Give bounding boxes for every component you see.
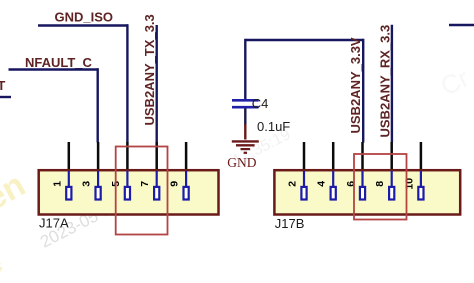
wire GND_ISO horizontal	[38, 24, 128, 26]
svg-text:NFAULT_C: NFAULT_C	[25, 55, 93, 70]
wire cropped stub at left edge	[0, 96, 11, 98]
svg-text:USB2ANY_RX_3.3: USB2ANY_RX_3.3	[378, 25, 393, 138]
wire GND_ISO vertical to J17A pin 5	[126, 24, 128, 142]
J17B pin 6	[360, 142, 365, 200]
J17A pin 9	[184, 142, 189, 200]
svg-text:0.1uF: 0.1uF	[257, 119, 290, 134]
watermark (decorative)	[0, 63, 474, 282]
svg-text:2: 2	[287, 181, 299, 187]
J17B pin 4	[331, 142, 336, 200]
J17B pin 10	[418, 142, 423, 200]
connector J17B body	[274, 170, 460, 214]
svg-text:7: 7	[139, 181, 151, 187]
svg-text:8: 8	[374, 181, 386, 187]
wire top-right stub	[449, 24, 474, 26]
ground GND	[227, 124, 258, 170]
wire USB2ANY_RX_3.3 vertical to J17B pin 8	[391, 25, 393, 143]
svg-text:USB2ANY_3.3V: USB2ANY_3.3V	[348, 37, 363, 133]
J17A pin 5	[125, 142, 130, 200]
J17B pin 8	[389, 142, 394, 200]
svg-text:T: T	[0, 78, 5, 93]
svg-text:J17A: J17A	[39, 215, 69, 230]
connector J17A body	[39, 170, 219, 214]
J17A pin 3	[96, 142, 101, 200]
svg-text:C4: C4	[252, 96, 269, 111]
wire NFAULT_C horizontal	[9, 68, 99, 70]
J17A pin 1	[66, 142, 71, 200]
svg-text:GND_ISO: GND_ISO	[55, 9, 114, 24]
svg-text:4: 4	[316, 181, 328, 187]
wire USB2ANY_TX_3.3 vertical to J17A pin 7	[155, 25, 157, 143]
svg-text:J17B: J17B	[275, 216, 305, 231]
highlight box around J17B pins 6-8	[354, 154, 407, 220]
wire C4 top vertical	[244, 39, 246, 100]
J17B pin 2	[301, 142, 306, 200]
J17A pin 7	[154, 142, 159, 200]
svg-text:10: 10	[403, 178, 415, 190]
svg-text:6: 6	[345, 181, 357, 187]
svg-text:1: 1	[51, 181, 63, 187]
highlight box around J17A pins 5-7	[116, 147, 168, 235]
wire C4 top to USB2ANY_3.3V horizontal	[245, 39, 363, 41]
svg-text:3: 3	[81, 181, 93, 187]
svg-text:GND: GND	[227, 155, 256, 170]
capacitor C4	[232, 100, 259, 126]
wire NFAULT_C vertical to J17A pin 3	[96, 68, 98, 142]
svg-text:USB2ANY_TX_3.3: USB2ANY_TX_3.3	[142, 14, 157, 125]
svg-text:9: 9	[169, 181, 181, 187]
wire USB2ANY_3.3V vertical to J17B pin 6	[362, 39, 364, 143]
